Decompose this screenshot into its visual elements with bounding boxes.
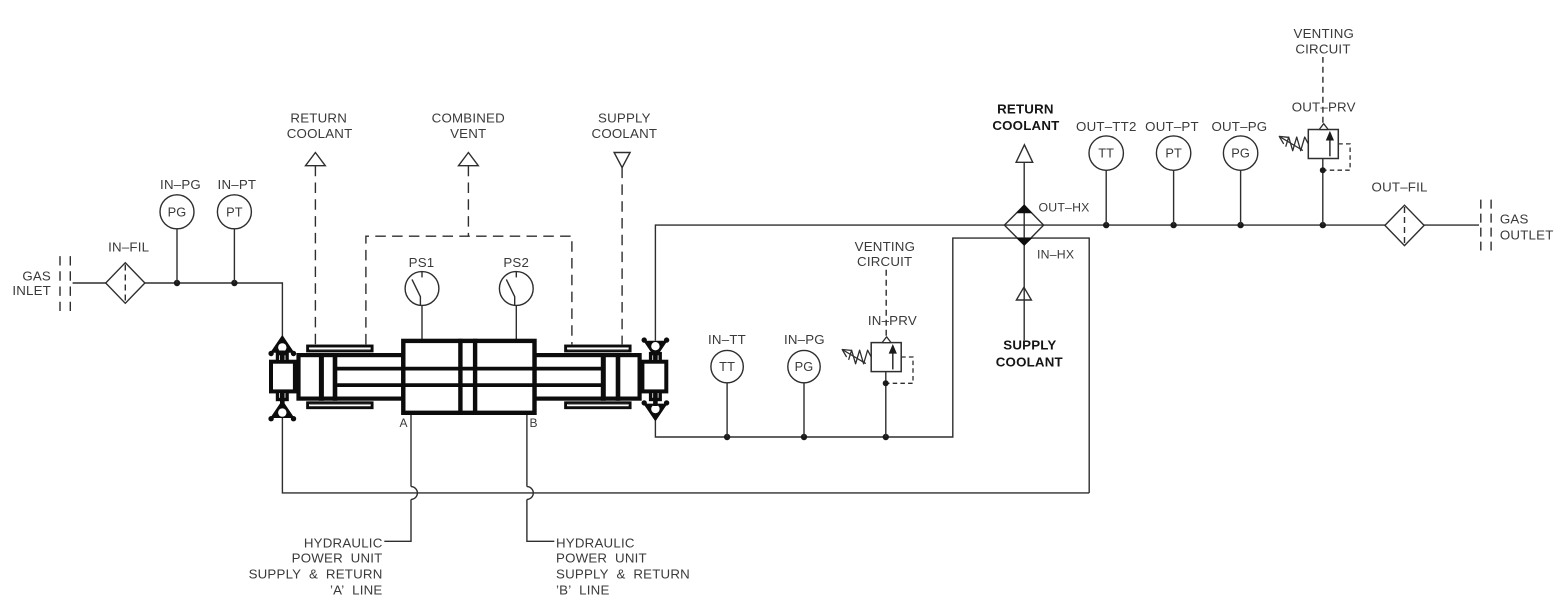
node: IN-PG tap junction (bottom) [801,434,807,440]
compressor: left head bottom tab [278,391,288,399]
text GAS INLET [12,268,51,297]
break: gas outlet boundary bars [1481,200,1491,251]
text RETURN COOLANT (left) [287,111,353,141]
pressure switch PS1 [405,272,439,306]
svg-text:RETURN: RETURN [997,102,1054,117]
node: IN-PT tap junction [231,280,237,286]
compressor: left gas barrel [299,355,404,399]
node: OUT-PRV tap junction [1320,222,1326,228]
wire: return coolant dashed line [314,166,316,345]
svg-text:TT: TT [719,359,735,374]
wire: PS1 stem [421,305,423,339]
text RETURN COOLANT (right, bold) [992,102,1059,134]
svg-text:POWER UNIT: POWER UNIT [556,551,647,566]
svg-text:OUTLET: OUTLET [1500,228,1554,243]
wire: OUT-PG gauge stem [1240,170,1242,225]
compressor: right bottom cooling sleeve [566,403,631,408]
compressor: left top valve stem [280,351,285,363]
wire: IN-PRV stem [885,372,887,438]
svg-text:VENTING: VENTING [1294,26,1355,41]
compressor: left head top tab [278,354,288,362]
svg-text:COOLANT: COOLANT [287,126,353,141]
svg-text:PG: PG [168,204,187,219]
filter OUT-FIL [1385,205,1424,245]
svg-text:SUPPLY: SUPPLY [1003,338,1056,353]
gauge IN-TT [711,350,743,382]
compressor: right head top tab [651,354,661,362]
wire: return header along bottom [282,417,1089,493]
svg-text:SUPPLY & RETURN: SUPPLY & RETURN [556,566,690,581]
svg-text:’B’ LINE: ’B’ LINE [556,583,610,598]
wire: IN-PG gauge stem (bottom) [803,383,805,437]
svg-text:POWER UNIT: POWER UNIT [292,551,383,566]
svg-text:PS2: PS2 [503,255,529,270]
svg-text:SUPPLY: SUPPLY [598,111,651,126]
wire: port B drop with hop over return header [527,415,554,542]
svg-text:HYDRAULIC: HYDRAULIC [556,536,635,551]
svg-text:IN–HX: IN–HX [1037,248,1074,262]
svg-text:COOLANT: COOLANT [996,354,1063,369]
svg-text:A: A [399,416,407,430]
gauge IN-PT [217,195,251,229]
compressor: left top cooling sleeve [308,346,373,351]
wire: IN-PRV dashed vent riser [885,268,887,336]
compressor: piston rod lower line [335,383,603,387]
wire: OUT-TT2 gauge stem [1105,170,1107,225]
svg-text:IN–FIL: IN–FIL [108,239,149,254]
compressor: right bottom valve stem [653,391,658,406]
svg-text:OUT–PG: OUT–PG [1211,119,1267,134]
filter IN-FIL [106,263,145,304]
svg-text:PT: PT [1165,146,1182,161]
svg-text:OUT–TT2: OUT–TT2 [1076,119,1137,134]
compressor: left bottom cooling sleeve [308,403,373,408]
text SUPPLY COOLANT (left) [592,111,658,141]
vent arrow: combined vent triangle [459,153,479,166]
svg-text:PS1: PS1 [409,255,435,270]
wire: OUT-PRV dashed vent riser [1322,57,1324,123]
svg-text:CIRCUIT: CIRCUIT [857,254,912,269]
svg-text:SUPPLY & RETURN: SUPPLY & RETURN [249,566,383,581]
compressor: piston rod upper line [335,367,603,371]
svg-text:B: B [529,416,537,430]
gauge IN-PG (bottom) [788,350,820,382]
svg-text:IN–PT: IN–PT [218,177,257,192]
svg-text:CIRCUIT: CIRCUIT [1295,42,1350,57]
svg-text:PG: PG [795,359,814,374]
compressor: right top cooling sleeve [566,346,631,351]
wire: IN-TT gauge stem [726,383,728,437]
compressor: right top valve stem [653,356,658,363]
svg-text:OUT–PT: OUT–PT [1145,119,1199,134]
wire: PS2 stem [515,305,517,339]
svg-text:’A’ LINE: ’A’ LINE [330,583,383,598]
svg-text:INLET: INLET [12,283,51,298]
svg-text:COOLANT: COOLANT [592,126,658,141]
svg-text:COOLANT: COOLANT [992,118,1059,133]
vent arrow: return coolant triangle [306,153,326,166]
vent arrow: return coolant triangle (right) [1016,145,1033,163]
text hydraulic power unit A [249,536,383,598]
check valve: right bottom [642,400,670,420]
text VENTING CIRCUIT (right) [1294,26,1355,57]
compressor: right head bottom tab [651,391,661,399]
svg-text:IN–TT: IN–TT [708,332,746,347]
gauge OUT-PT [1156,136,1190,170]
gauge OUT-PG [1223,136,1257,170]
node: OUT-PG tap junction [1237,222,1243,228]
wire: suction riser down to inlet check valve [281,282,283,338]
wire: supply coolant dashed drop [621,168,623,345]
check valve: right top [642,337,670,357]
svg-text:GAS: GAS [1500,211,1529,226]
flow arrow: coolant supply triangle [1016,287,1031,300]
wire: OUT-PT gauge stem [1173,170,1175,225]
svg-text:VENT: VENT [450,126,486,141]
node: IN-TT tap junction [724,434,730,440]
break: gas inlet boundary bars [60,256,70,311]
node: OUT-PT tap junction [1170,222,1176,228]
wire: vent manifold dashed header [366,236,572,344]
text VENTING CIRCUIT (middle) [855,239,916,269]
node: OUT-TT2 tap junction [1103,222,1109,228]
svg-text:IN–PG: IN–PG [160,177,201,192]
svg-text:COMBINED: COMBINED [432,111,505,126]
node: IN-PG tap junction [174,280,180,286]
text hydraulic power unit B [556,536,690,598]
pressure switch PS2 [499,272,533,306]
compressor: right head block [642,362,666,392]
check valve: left bottom [268,402,296,422]
svg-text:RETURN: RETURN [290,111,347,126]
node: IN-PRV tap junction [883,434,889,440]
svg-text:VENTING: VENTING [855,239,916,254]
relief valve OUT-PRV [1279,124,1350,174]
compressor: left gas piston [321,353,335,401]
check valve: suction inlet (left top) [268,336,296,356]
wire: inlet header from filter to compressor suction riser [145,282,283,284]
gauge OUT-TT2 [1089,136,1123,170]
compressor: hydraulic piston divider right [473,339,477,415]
compressor: right gas barrel [535,355,640,399]
svg-text:HYDRAULIC: HYDRAULIC [304,536,383,551]
svg-text:TT: TT [1098,146,1114,161]
compressor: hydraulic piston divider left [458,339,462,415]
text COMBINED VENT [432,111,505,141]
svg-text:PT: PT [226,204,243,219]
wire: coolant line through heat exchanger [1023,162,1025,340]
text SUPPLY COOLANT (right, bold) [996,338,1063,370]
wire: combined vent dashed drop [467,166,469,237]
svg-text:IN–PRV: IN–PRV [868,313,917,328]
heat exchanger OUT-HX / IN-HX diamond [1004,204,1043,246]
svg-text:IN–PG: IN–PG [784,332,825,347]
svg-text:OUT–HX: OUT–HX [1039,201,1090,215]
svg-text:PG: PG [1231,146,1250,161]
wire: right suction drop to gauge header [655,238,1089,493]
compressor: left head block [271,362,295,392]
flow arrow: supply coolant triangle (down) [614,153,630,168]
relief valve IN-PRV [842,337,913,387]
wire: IN-PT gauge stem [233,229,235,283]
wire: IN-PG gauge stem [176,229,178,283]
gauge IN-PG [160,195,194,229]
wire: port A drop with hop over return header [384,415,417,542]
wire: OUT-PRV stem [1322,159,1324,225]
text GAS OUTLET [1500,211,1554,242]
compressor: right gas piston [603,353,618,401]
svg-text:OUT–FIL: OUT–FIL [1372,180,1428,195]
compressor: left bottom valve stem [280,391,285,403]
wire: gas inlet stub from break to filter [73,282,106,284]
svg-text:GAS: GAS [22,268,51,283]
compressor: hydraulic drive cylinder [403,341,534,413]
wire: discharge riser and outlet header [655,225,1479,341]
svg-text:OUT–PRV: OUT–PRV [1292,99,1356,114]
